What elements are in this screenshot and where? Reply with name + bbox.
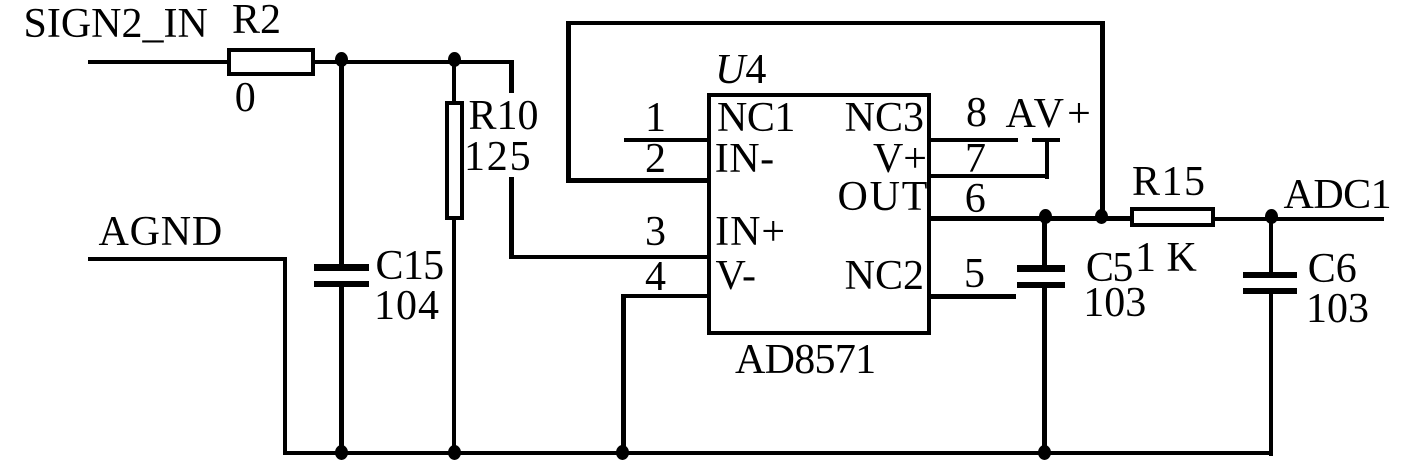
wire AGND lead — [88, 257, 287, 261]
label R10 — [469, 95, 539, 137]
node SIGN2_IN label — [24, 3, 208, 45]
wire pin1 line (NC1) — [624, 138, 711, 142]
wire R10 lower lead — [452, 219, 456, 455]
part number AD8571 — [735, 339, 875, 381]
node junction dot B — [448, 52, 461, 67]
node rail dot R10 — [448, 445, 461, 460]
pin number 6 — [965, 178, 986, 220]
wire pin7 line (V+) — [927, 174, 1049, 178]
node ADC1 label — [1284, 174, 1392, 216]
wire C6 upper lead — [1269, 218, 1273, 275]
capacitor C6 top plate — [1243, 272, 1297, 278]
pin number 3 — [645, 211, 666, 253]
wire feedback right leg — [1100, 21, 1104, 220]
wire pin2 line (IN-) — [566, 178, 711, 182]
node AGND label — [99, 211, 224, 253]
capacitor C6 bottom plate — [1243, 288, 1297, 294]
value 103 (C6) — [1306, 288, 1369, 330]
wire C5 upper lead — [1042, 218, 1046, 266]
wire pin6 line (OUT) — [927, 216, 1130, 220]
capacitor C15 top plate — [314, 264, 368, 270]
resistor R2 — [227, 48, 315, 76]
op-amp U4 box — [707, 93, 931, 335]
wire C15 upper lead — [339, 60, 343, 265]
wire R10 upper lead — [452, 60, 456, 102]
pin number 1 — [645, 97, 666, 139]
pin number 7 — [965, 138, 986, 180]
pin number 2 — [645, 138, 666, 180]
resistor R15 — [1130, 207, 1214, 227]
capacitor C5 top plate — [1017, 265, 1065, 271]
value 104 (C15) — [374, 285, 440, 327]
wire C15 lower lead — [339, 287, 343, 455]
resistor R10 — [445, 101, 464, 220]
wire R2 to corner — [315, 60, 514, 64]
label C5 — [1086, 247, 1132, 289]
label U4 — [715, 49, 766, 91]
node ADC1 dot — [1265, 209, 1278, 224]
value 0 (R2) — [235, 77, 256, 119]
pin name V- — [716, 255, 756, 297]
label R15 — [1132, 161, 1207, 203]
capacitor C5 bottom plate — [1017, 282, 1065, 288]
pin name OUT — [837, 176, 929, 218]
pin number 8 — [966, 92, 987, 134]
power AV+ vertical — [1045, 138, 1049, 179]
wire C5 lower lead — [1042, 287, 1046, 455]
wire C6 lower lead — [1269, 294, 1273, 456]
pin name NC3 — [845, 97, 924, 139]
node rail dot C15 — [335, 445, 348, 460]
wire V- vertical leg — [621, 294, 625, 456]
wire feedback left leg — [566, 21, 570, 183]
wire corner vertical lower segment (x=511) — [509, 177, 513, 259]
pin name V+ — [873, 138, 927, 180]
node OUT dot C5 — [1039, 209, 1052, 224]
label C6 — [1308, 248, 1357, 290]
pin name NC2 — [845, 255, 924, 297]
wire pin5 line (NC2) — [927, 294, 1016, 298]
wire corner vertical upper segment (x=511) — [509, 60, 513, 93]
label AV+ — [1006, 93, 1095, 135]
wire R15 to ADC1 — [1215, 217, 1385, 221]
capacitor C15 bottom plate — [314, 281, 368, 288]
wire pin8 line (NC3) — [927, 138, 1018, 142]
label R2 — [232, 0, 281, 41]
pin number 5 — [964, 253, 985, 295]
node junction dot A — [335, 52, 348, 67]
node OUT dot feedback — [1095, 209, 1108, 224]
node rail dot C5 — [1038, 445, 1051, 460]
node rail dot V- — [616, 445, 629, 460]
value 125 (R10) — [464, 136, 532, 178]
value 103 (C5) — [1083, 282, 1146, 324]
pin name IN- — [715, 138, 775, 180]
value 1 K (R15) — [1135, 237, 1197, 279]
wire SIGN2_IN lead — [88, 60, 227, 64]
pin name IN+ — [715, 211, 786, 253]
label C15 — [376, 245, 444, 287]
pin number 4 — [645, 256, 666, 298]
wire ground rail — [283, 451, 1274, 455]
pin name NC1 — [717, 97, 795, 139]
wire AGND vertical — [283, 257, 287, 456]
wire pin3 line (IN+) — [509, 255, 711, 259]
power AV+ bar — [1032, 138, 1060, 142]
wire feedback top — [566, 21, 1105, 25]
wire pin4 line (V-) — [621, 294, 711, 298]
